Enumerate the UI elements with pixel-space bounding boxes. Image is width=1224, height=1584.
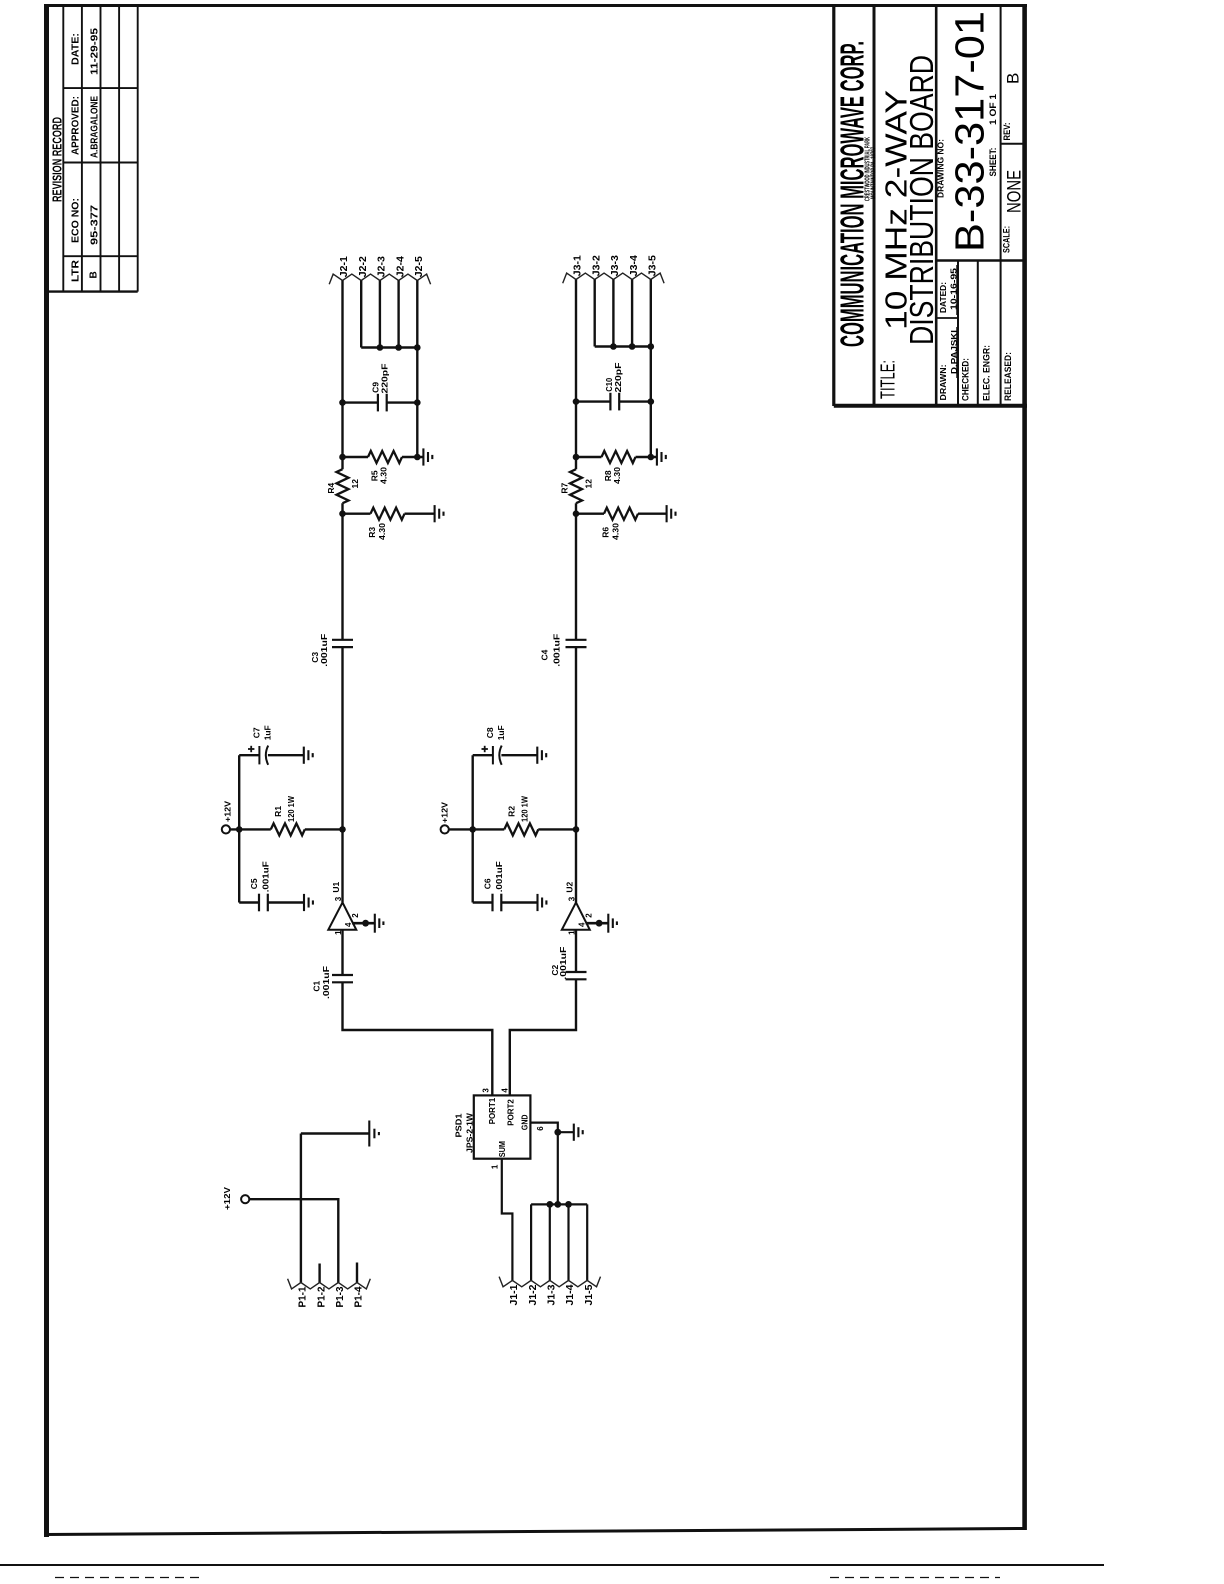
svg-text:J3-2: J3-2 — [591, 255, 602, 276]
wire C5 to ground — [268, 901, 304, 903]
wire J3-2 drop — [594, 280, 596, 347]
op-amp U1 (MMIC) — [328, 896, 383, 935]
svg-text:R1: R1 — [273, 806, 283, 817]
svg-text:220pF: 220pF — [380, 364, 390, 394]
wire R3 left lead — [343, 513, 371, 515]
svg-text:NONE: NONE — [1005, 170, 1026, 213]
svg-text:.001uF: .001uF — [321, 966, 331, 999]
node J3-5 bus — [648, 343, 655, 350]
capacitor C9 — [378, 394, 387, 412]
svg-text:U1: U1 — [331, 881, 341, 892]
svg-text:J2-2: J2-2 — [358, 256, 369, 277]
+12V terminal circle bottom — [241, 1195, 249, 1203]
wire right branch J3-5 down to R8 — [650, 347, 652, 458]
node R5 right — [414, 454, 421, 461]
wire GND pin 6 out — [530, 1123, 557, 1133]
wire J2-1 to C9 node and R4 — [341, 281, 343, 470]
svg-text:.001uF: .001uF — [552, 634, 562, 667]
wire P1-1 to ground — [301, 1132, 369, 1134]
ground at C7 — [304, 747, 313, 764]
junction dots channel A — [236, 344, 421, 833]
wire U1 output to C1 — [341, 930, 343, 975]
svg-text:1: 1 — [491, 1164, 500, 1169]
svg-text:1uF: 1uF — [263, 725, 273, 740]
svg-text:JPS-2-1W: JPS-2-1W — [465, 1112, 475, 1153]
capacitor C5 — [259, 894, 268, 912]
svg-text:12: 12 — [350, 479, 360, 489]
border bottom line — [45, 1529, 1024, 1535]
resistor R7 (vertical, 12 ohm) — [570, 469, 582, 503]
wire J3-1 to C10 node and R7 — [575, 280, 577, 470]
junction dot J1-4 — [565, 1201, 572, 1208]
svg-text:DATED:: DATED: — [938, 282, 948, 313]
+12V terminal circle — [222, 825, 230, 833]
junction dot GND node — [554, 1129, 561, 1136]
wire R5 left lead — [343, 456, 369, 458]
wire C4 to U2 input line — [575, 647, 577, 902]
svg-text:CHECKED:: CHECKED: — [961, 358, 971, 401]
node J2-5 bus — [414, 344, 421, 351]
svg-text:R6: R6 — [600, 527, 610, 538]
capacitor C4 — [566, 640, 587, 647]
svg-text:A.BRAGALONE: A.BRAGALONE — [90, 96, 101, 158]
junction dots channel B — [469, 343, 654, 833]
svg-text:DRAWING NO:: DRAWING NO: — [936, 139, 946, 198]
wire C9 left lead — [343, 401, 378, 403]
wire R8 left lead — [576, 456, 602, 458]
wire J2-3 drop — [379, 281, 381, 348]
svg-text:B: B — [89, 271, 100, 278]
wire right branch J2-5 down to R5 — [416, 348, 418, 458]
ground at C8 — [537, 747, 546, 764]
resistor R3 — [371, 508, 405, 520]
wire J2-2 drop — [360, 281, 362, 348]
wire to C6 plate — [473, 901, 493, 903]
svg-text:.001uF: .001uF — [319, 634, 329, 667]
wire R1 to main line — [305, 828, 343, 830]
svg-text:4.30: 4.30 — [610, 523, 620, 540]
node R5 left — [339, 454, 346, 461]
svg-text:ECO NO:: ECO NO: — [70, 198, 82, 243]
svg-text:REV:: REV: — [1002, 123, 1012, 141]
svg-text:C8: C8 — [485, 727, 495, 738]
border left bar — [44, 4, 49, 1537]
capacitor C8 (electrolytic) — [493, 746, 502, 765]
svg-text:TITLE:: TITLE: — [878, 360, 900, 399]
svg-text:J2-3: J2-3 — [377, 256, 388, 277]
svg-text:95-377: 95-377 — [90, 204, 101, 245]
svg-text:LTR: LTR — [70, 260, 82, 282]
connector J1 zigzag — [499, 1277, 600, 1287]
resistor R4 (vertical, 12 ohm) — [337, 469, 349, 503]
wire R6 left lead — [576, 513, 604, 515]
svg-text:U2: U2 — [564, 881, 574, 892]
wire R8 right lead to ground — [636, 456, 657, 458]
ground at R3 — [435, 505, 444, 522]
capacitor C7 (electrolytic) — [259, 746, 268, 765]
node J3-4 bus — [629, 343, 636, 350]
svg-text:P1-2: P1-2 — [316, 1286, 327, 1307]
wire C10 left lead — [576, 400, 610, 402]
wire SUM pin 1 down — [502, 1159, 513, 1281]
junction dot GND bus — [554, 1201, 561, 1208]
wire to C5 plate — [239, 901, 259, 903]
ground at C6 — [538, 894, 547, 911]
wire bypass branch up to C7 — [238, 755, 240, 829]
svg-text:220pF: 220pF — [613, 363, 623, 393]
title block lines — [834, 4, 1027, 406]
svg-text:R7: R7 — [559, 482, 569, 493]
connector J2 zigzag — [329, 274, 430, 284]
wire J3 bus — [595, 345, 651, 347]
wire to C7 plate — [239, 754, 259, 756]
svg-text:4.30: 4.30 — [378, 467, 388, 484]
+12V terminal circle channel B — [441, 825, 449, 833]
resistor R1 — [271, 823, 305, 835]
svg-text:4.30: 4.30 — [377, 523, 387, 540]
wire C1 to PSD1 port1 — [343, 982, 493, 1095]
node R3 left — [339, 510, 346, 517]
capacitor C10 — [610, 393, 619, 411]
wire R2 to main line — [538, 828, 576, 830]
node R2 output — [573, 826, 580, 833]
svg-text:J2-5: J2-5 — [414, 256, 425, 277]
svg-text:J2-4: J2-4 — [395, 256, 406, 277]
wire J3-5 drop — [650, 280, 652, 347]
svg-text:R4: R4 — [326, 482, 336, 493]
chassis ground at P1-1 — [369, 1121, 379, 1147]
svg-text:J3-5: J3-5 — [648, 255, 659, 276]
node bypass branch — [236, 826, 243, 833]
svg-text:APPROVED:: APPROVED: — [70, 96, 82, 155]
wire J2-5 drop — [416, 281, 418, 348]
node R8 right — [648, 454, 655, 461]
wire P1-4 stub — [356, 1263, 358, 1283]
C8 plus sign — [482, 746, 488, 752]
wire GND stub to ground — [558, 1131, 574, 1133]
wire J2-4 drop — [397, 281, 399, 348]
svg-text:J1-5: J1-5 — [584, 1284, 595, 1305]
svg-text:11-29-95: 11-29-95 — [90, 27, 101, 75]
svg-text:J2-1: J2-1 — [339, 256, 350, 277]
wire R7 to C4 — [575, 503, 577, 640]
wire J1 bus — [531, 1203, 587, 1205]
svg-text:J1-1: J1-1 — [509, 1284, 520, 1305]
svg-text:C7: C7 — [252, 727, 262, 738]
C7 plus sign — [248, 746, 254, 752]
svg-text:.001uF: .001uF — [558, 947, 568, 980]
resistor R5 — [368, 451, 402, 463]
wire C10 right lead — [619, 400, 651, 402]
wire R5 right lead to ground — [402, 456, 423, 458]
node R8 left — [573, 454, 580, 461]
svg-text:120 1W: 120 1W — [519, 795, 529, 822]
svg-text:D.PAJSKI: D.PAJSKI — [949, 330, 959, 374]
wire P1-1 up — [300, 1134, 302, 1283]
wire R3 right lead to ground — [405, 513, 435, 515]
svg-text:.001uF: .001uF — [260, 861, 270, 892]
svg-text:120 1W: 120 1W — [286, 795, 296, 822]
node R1 output — [339, 826, 346, 833]
ground at R8 — [657, 448, 666, 465]
svg-text:GND: GND — [521, 1114, 530, 1130]
ground at PSD1 pin 6 — [574, 1124, 583, 1141]
wire bypass branch down to C5 — [238, 829, 240, 902]
wire J1-2 drop — [530, 1204, 532, 1280]
svg-text:J1-2: J1-2 — [528, 1284, 539, 1305]
svg-text:J1-4: J1-4 — [565, 1284, 576, 1305]
border top line — [44, 4, 1027, 7]
svg-text:RELEASED:: RELEASED: — [1003, 352, 1013, 401]
svg-text:J3-1: J3-1 — [573, 255, 584, 276]
node C9 left — [339, 399, 346, 406]
node C10 right — [648, 398, 655, 405]
svg-text:3: 3 — [482, 1088, 491, 1093]
wire C6 to ground — [501, 901, 537, 903]
wire +12V to P1-3 — [249, 1199, 338, 1282]
ground at R5 — [423, 448, 432, 465]
svg-text:10-16-95: 10-16-95 — [949, 268, 959, 310]
svg-text:12: 12 — [584, 479, 594, 489]
svg-text:R2: R2 — [507, 806, 517, 817]
wire C2 to PSD1 port2 — [510, 979, 576, 1095]
wire to C8 plate — [473, 754, 493, 756]
capacitor C3 — [332, 640, 353, 647]
svg-text:6: 6 — [536, 1126, 545, 1131]
wire J3-4 drop — [631, 280, 633, 347]
svg-text:B-33-317-01: B-33-317-01 — [947, 11, 993, 252]
svg-text:+12V: +12V — [440, 802, 450, 823]
svg-text:1 OF 1: 1 OF 1 — [988, 94, 998, 125]
wire C3 to U1 input line — [341, 647, 343, 902]
svg-text:1uF: 1uF — [496, 725, 506, 740]
wire C7 to ground — [268, 754, 304, 756]
connector J3 zigzag — [563, 273, 664, 283]
svg-text:SHEET:: SHEET: — [988, 148, 998, 177]
node R6 left — [573, 510, 580, 517]
power splitter PSD1 box — [474, 1095, 531, 1158]
node J3-3 bus — [610, 343, 617, 350]
capacitor C6 — [493, 894, 502, 912]
svg-text:PORT1: PORT1 — [488, 1097, 497, 1124]
svg-text:+12V: +12V — [223, 801, 233, 822]
wire P1-2 stub — [318, 1264, 320, 1283]
op-amp U2 (MMIC) — [562, 896, 617, 935]
node C9 right — [414, 399, 421, 406]
svg-text:DRAWN:: DRAWN: — [938, 364, 948, 400]
svg-text:REVISION RECORD: REVISION RECORD — [50, 117, 65, 202]
svg-text:C5: C5 — [249, 878, 259, 889]
wire C9 right lead — [387, 401, 418, 403]
revision record table — [48, 6, 138, 292]
svg-text:R3: R3 — [367, 527, 377, 538]
wire J1-4 drop — [567, 1204, 569, 1280]
wire R4 to C3 — [341, 503, 343, 640]
svg-text:J3-4: J3-4 — [629, 255, 640, 276]
svg-text:P1-1: P1-1 — [298, 1286, 309, 1307]
resistor R6 — [604, 508, 638, 520]
wire C8 to ground — [501, 754, 537, 756]
node J2-4 bus — [395, 344, 402, 351]
wire bypass branch down to C6 — [472, 829, 474, 902]
resistor R8 — [602, 451, 636, 463]
wire bypass branch up to C8 — [472, 755, 474, 829]
ground at C5 — [304, 894, 313, 911]
ground at R6 — [667, 505, 676, 522]
svg-text:ELEC. ENGR:: ELEC. ENGR: — [982, 345, 992, 401]
wire +12V to R2 — [449, 828, 505, 830]
wire GND down to J1 bus — [557, 1132, 559, 1204]
svg-text:DATE:: DATE: — [70, 33, 82, 65]
capacitor C1 — [332, 975, 353, 982]
wire +12V to R1 — [230, 828, 271, 830]
svg-text:P1-4: P1-4 — [354, 1286, 365, 1307]
svg-text:B: B — [1004, 73, 1023, 84]
svg-text:J1-3: J1-3 — [547, 1284, 558, 1305]
wire J2 bus — [361, 346, 417, 348]
wire J1-3 drop — [549, 1204, 551, 1280]
junction dot J1-3 — [546, 1201, 553, 1208]
page edge artifact line — [0, 1564, 1104, 1566]
svg-text:C4: C4 — [540, 649, 550, 660]
wire J1-5 drop — [586, 1204, 588, 1280]
node J2-3 bus — [377, 344, 384, 351]
svg-text:.001uF: .001uF — [494, 861, 504, 892]
wire R6 right lead to ground — [638, 513, 666, 515]
svg-text:4: 4 — [501, 1088, 510, 1093]
svg-text:C6: C6 — [483, 878, 493, 889]
capacitor C2 — [566, 972, 587, 979]
border right bar — [1022, 4, 1027, 1530]
connector P1 zigzag — [288, 1279, 371, 1289]
svg-text:P1-3: P1-3 — [335, 1286, 346, 1307]
page edge artifact dashes — [55, 1577, 200, 1579]
resistor R2 — [504, 823, 538, 835]
wire J3-3 drop — [612, 280, 614, 347]
node C10 left — [573, 398, 580, 405]
node bypass branch B — [469, 826, 476, 833]
svg-text:MOUNTAINTOP PA. 18707: MOUNTAINTOP PA. 18707 — [869, 147, 878, 199]
svg-text:+12V: +12V — [222, 1187, 232, 1210]
svg-text:SUM: SUM — [498, 1141, 507, 1158]
svg-text:PORT2: PORT2 — [507, 1099, 516, 1126]
svg-text:DISTRIBUTION BOARD: DISTRIBUTION BOARD — [903, 55, 940, 345]
svg-text:PSD1: PSD1 — [453, 1113, 463, 1137]
svg-text:4.30: 4.30 — [612, 467, 622, 484]
wire U2 output to C2 — [575, 930, 577, 972]
svg-text:SCALE:: SCALE: — [1002, 226, 1012, 253]
svg-text:J3-3: J3-3 — [610, 255, 621, 276]
